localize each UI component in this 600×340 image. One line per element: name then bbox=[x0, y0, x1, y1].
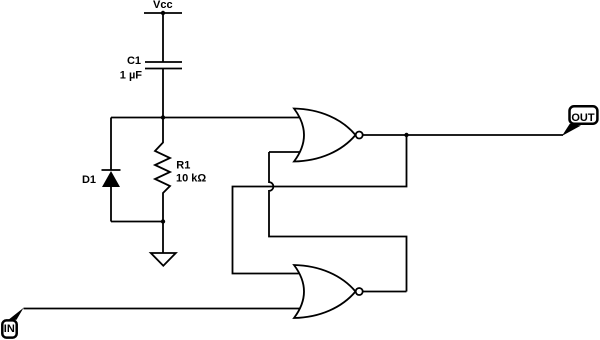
svg-text:1 µF: 1 µF bbox=[120, 70, 143, 82]
svg-text:R1: R1 bbox=[176, 160, 190, 172]
svg-text:C1: C1 bbox=[127, 55, 141, 67]
svg-text:OUT: OUT bbox=[571, 112, 595, 124]
svg-text:D1: D1 bbox=[82, 174, 96, 186]
svg-text:10 kΩ: 10 kΩ bbox=[176, 173, 206, 185]
svg-text:IN: IN bbox=[4, 323, 15, 335]
svg-text:Vcc: Vcc bbox=[153, 0, 173, 11]
